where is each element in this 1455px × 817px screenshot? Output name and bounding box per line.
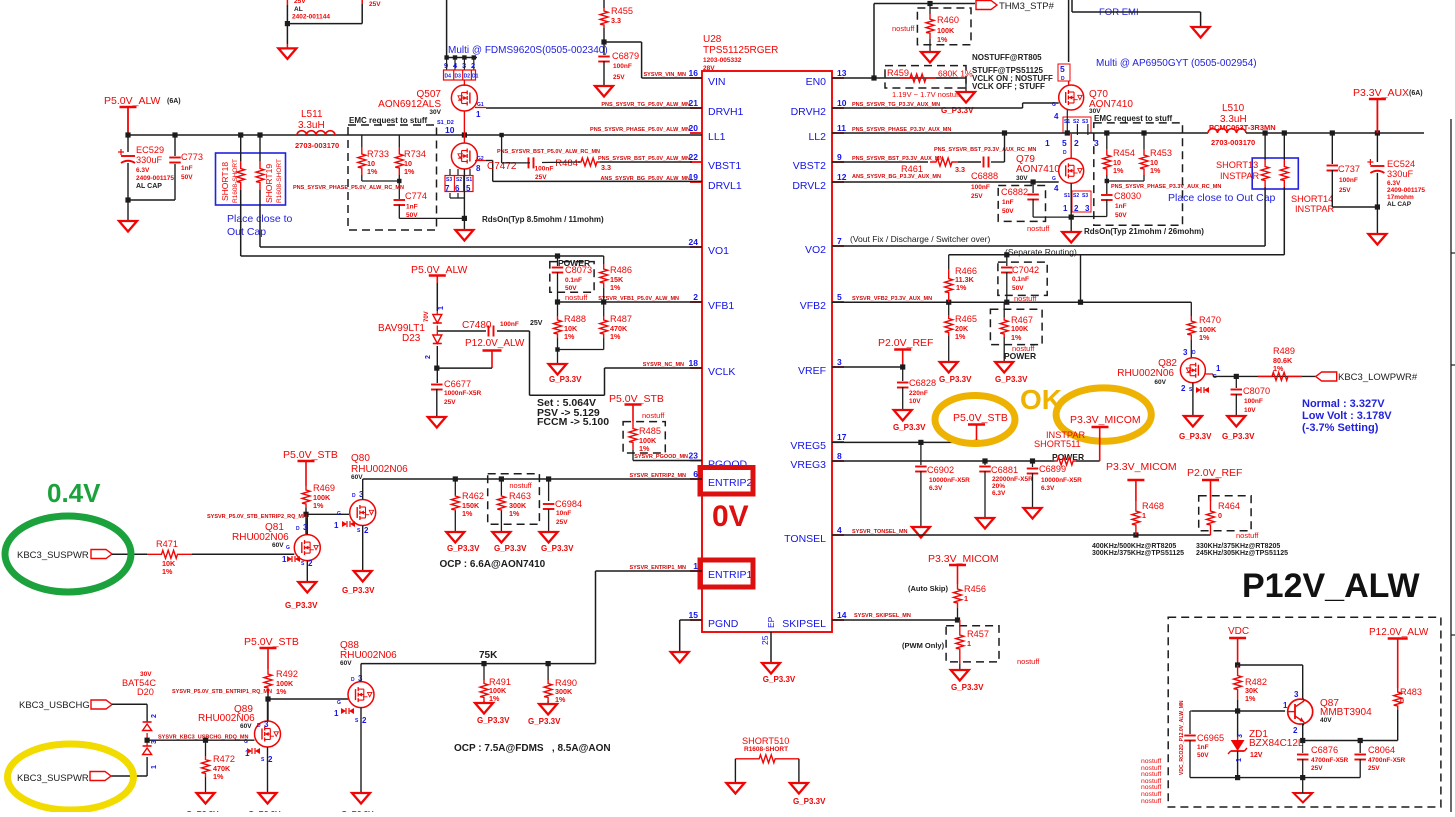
svg-text:D1: D1 xyxy=(472,74,479,80)
svg-text:3: 3 xyxy=(1294,690,1299,699)
svg-text:Place close to Out Cap: Place close to Out Cap xyxy=(1168,192,1276,204)
svg-text:25V: 25V xyxy=(369,1,381,8)
svg-text:1nF: 1nF xyxy=(1002,199,1014,206)
svg-text:R463: R463 xyxy=(509,491,531,501)
svg-text:ENTRIP2: ENTRIP2 xyxy=(708,477,753,489)
svg-text:VFB1: VFB1 xyxy=(708,300,734,312)
svg-text:3: 3 xyxy=(1183,348,1188,357)
svg-text:17: 17 xyxy=(837,432,847,442)
svg-text:50V: 50V xyxy=(565,285,577,292)
svg-text:6.3V: 6.3V xyxy=(929,485,943,492)
svg-text:0.4V: 0.4V xyxy=(47,478,101,508)
svg-text:S3: S3 xyxy=(1082,193,1088,199)
svg-text:P2.0V_REF: P2.0V_REF xyxy=(1187,467,1242,479)
svg-text:2: 2 xyxy=(268,755,273,764)
svg-text:SYSVR_VIN_MN: SYSVR_VIN_MN xyxy=(644,72,687,78)
svg-text:INSTPAR: INSTPAR xyxy=(1220,171,1260,181)
svg-text:PNS_SYSVR_BST_P3.3V_AUX_MN: PNS_SYSVR_BST_P3.3V_AUX_MN xyxy=(852,156,943,162)
svg-text:VCLK OFF ; STUFF: VCLK OFF ; STUFF xyxy=(972,82,1045,91)
svg-text:15: 15 xyxy=(689,610,699,620)
svg-text:SYSVR_SKIPSEL_MN: SYSVR_SKIPSEL_MN xyxy=(854,613,911,619)
svg-text:R455: R455 xyxy=(611,6,633,16)
svg-text:1nF: 1nF xyxy=(1115,203,1127,210)
svg-text:50V: 50V xyxy=(1002,208,1014,215)
svg-text:(Vout Fix / Discharge / Switch: (Vout Fix / Discharge / Switcher over) xyxy=(850,234,990,244)
svg-text:P5.0V_STB: P5.0V_STB xyxy=(283,449,338,461)
svg-text:2409-001175: 2409-001175 xyxy=(136,175,174,182)
svg-text:SYSVR_ENTRIP2_MN: SYSVR_ENTRIP2_MN xyxy=(629,473,686,479)
svg-text:VDC: VDC xyxy=(1228,626,1249,637)
svg-text:3: 3 xyxy=(151,740,158,744)
svg-text:2409-001175: 2409-001175 xyxy=(1387,187,1425,194)
svg-text:PNS_SYSVR_BST_P3.3V_AUX_RC_MN: PNS_SYSVR_BST_P3.3V_AUX_RC_MN xyxy=(934,147,1036,153)
svg-text:3.3uH: 3.3uH xyxy=(298,120,325,131)
svg-text:VO1: VO1 xyxy=(708,245,729,257)
svg-text:2: 2 xyxy=(362,716,367,725)
svg-text:D: D xyxy=(352,493,356,499)
svg-text:11: 11 xyxy=(837,123,846,133)
svg-text:PCMC063T-3R3MN: PCMC063T-3R3MN xyxy=(1209,123,1276,132)
svg-text:DRVH2: DRVH2 xyxy=(791,106,827,118)
svg-text:1nF: 1nF xyxy=(1197,744,1209,751)
svg-text:1%: 1% xyxy=(162,567,173,576)
svg-text:1nF: 1nF xyxy=(406,204,418,211)
svg-text:0: 0 xyxy=(1400,696,1404,705)
svg-text:25V: 25V xyxy=(971,193,983,200)
svg-text:5: 5 xyxy=(1060,64,1065,74)
svg-text:16: 16 xyxy=(689,68,699,78)
svg-text:3.3: 3.3 xyxy=(955,165,965,174)
svg-text:SHORT511: SHORT511 xyxy=(1034,439,1081,449)
svg-text:FCCM -> 5.100: FCCM -> 5.100 xyxy=(537,416,609,428)
svg-text:P3.3V_MICOM: P3.3V_MICOM xyxy=(928,553,999,565)
svg-text:G: G xyxy=(337,511,341,517)
svg-text:R471: R471 xyxy=(156,539,178,549)
svg-text:25V: 25V xyxy=(1339,187,1351,194)
svg-text:EP: EP xyxy=(766,616,776,628)
svg-text:PGND: PGND xyxy=(708,618,739,630)
svg-text:60V: 60V xyxy=(272,542,284,549)
svg-text:60V: 60V xyxy=(240,723,252,730)
svg-text:60V: 60V xyxy=(340,660,352,667)
svg-text:nostuff: nostuff xyxy=(1027,224,1050,233)
svg-text:VO2: VO2 xyxy=(805,244,826,256)
svg-text:R1608-SHORT: R1608-SHORT xyxy=(744,746,788,753)
svg-text:D: D xyxy=(257,723,261,729)
svg-text:SHORT14: SHORT14 xyxy=(1291,194,1333,204)
svg-text:1: 1 xyxy=(334,709,339,718)
svg-text:PNS_SYSVR_PHASE_P5.0V_ALW_RC_M: PNS_SYSVR_PHASE_P5.0V_ALW_RC_MN xyxy=(293,185,404,191)
svg-text:G_P3.3V: G_P3.3V xyxy=(763,675,796,684)
svg-text:R465: R465 xyxy=(955,314,977,324)
svg-text:1nF: 1nF xyxy=(181,165,193,172)
svg-text:0V: 0V xyxy=(712,500,749,533)
svg-text:R454: R454 xyxy=(1113,148,1135,158)
svg-text:EMC request to stuff: EMC request to stuff xyxy=(1094,114,1173,123)
svg-text:4700nF-X5R: 4700nF-X5R xyxy=(1311,757,1349,764)
svg-text:100nF: 100nF xyxy=(500,321,519,328)
svg-text:17mohm: 17mohm xyxy=(1387,194,1414,201)
svg-text:(6A): (6A) xyxy=(1409,90,1423,97)
svg-text:nostuff: nostuff xyxy=(1014,294,1037,303)
svg-text:13: 13 xyxy=(837,68,847,78)
svg-text:P5.0V_STB: P5.0V_STB xyxy=(609,393,664,405)
svg-text:R488: R488 xyxy=(564,314,586,324)
svg-text:28V: 28V xyxy=(703,65,715,72)
svg-text:L511: L511 xyxy=(301,109,323,120)
svg-text:P2.0V_REF: P2.0V_REF xyxy=(878,337,933,349)
svg-text:R469: R469 xyxy=(313,483,335,493)
svg-text:P5.0V_ALW: P5.0V_ALW xyxy=(411,264,468,276)
svg-text:1%: 1% xyxy=(610,332,621,341)
svg-text:PNS_SYSVR_PHASE_P3.3V_AUX_MN: PNS_SYSVR_PHASE_P3.3V_AUX_MN xyxy=(852,127,951,133)
svg-text:C7042: C7042 xyxy=(1012,265,1039,275)
svg-text:4700nF-X5R: 4700nF-X5R xyxy=(1368,757,1406,764)
svg-text:4: 4 xyxy=(1054,184,1059,193)
svg-text:0: 0 xyxy=(1218,511,1222,520)
svg-text:2: 2 xyxy=(425,355,432,359)
svg-text:R456: R456 xyxy=(964,584,986,594)
svg-text:1%: 1% xyxy=(564,332,575,341)
svg-text:1%: 1% xyxy=(955,332,966,341)
svg-text:PNS_SYSVR_PHASE_P5.0V_ALW_MN: PNS_SYSVR_PHASE_P5.0V_ALW_MN xyxy=(590,127,690,133)
svg-text:PNS_SYSVR_BST_P5.0V_ALW_RC_MN: PNS_SYSVR_BST_P5.0V_ALW_RC_MN xyxy=(497,149,600,155)
svg-text:1203-005332: 1203-005332 xyxy=(703,57,742,64)
svg-text:1: 1 xyxy=(151,765,158,769)
svg-text:3.3: 3.3 xyxy=(601,163,611,172)
svg-text:1: 1 xyxy=(1142,511,1146,520)
svg-text:1%: 1% xyxy=(956,283,967,292)
svg-text:SYSVR_VFB1_P5.0V_ALW_MN: SYSVR_VFB1_P5.0V_ALW_MN xyxy=(598,296,679,302)
svg-text:KBC3_SUSPWR: KBC3_SUSPWR xyxy=(17,773,89,784)
svg-text:6.3V: 6.3V xyxy=(992,490,1006,497)
svg-text:50V: 50V xyxy=(1115,212,1127,219)
svg-text:SHORT13: SHORT13 xyxy=(1216,160,1258,170)
svg-text:25V: 25V xyxy=(613,74,625,81)
svg-text:R1608-SHORT: R1608-SHORT xyxy=(276,159,283,203)
svg-text:P12V_ALW: P12V_ALW xyxy=(1242,567,1421,605)
svg-text:nostuff: nostuff xyxy=(1017,657,1040,666)
svg-text:R461: R461 xyxy=(901,164,923,174)
svg-text:R489: R489 xyxy=(1273,346,1295,356)
svg-text:AL CAP: AL CAP xyxy=(1387,201,1412,208)
svg-text:25V: 25V xyxy=(556,519,568,526)
svg-text:10: 10 xyxy=(445,125,455,135)
svg-text:8: 8 xyxy=(476,164,481,173)
svg-text:EN0: EN0 xyxy=(806,76,827,88)
svg-text:3.3: 3.3 xyxy=(611,16,621,25)
svg-text:R462: R462 xyxy=(462,491,484,501)
svg-text:10V: 10V xyxy=(909,398,921,405)
svg-text:VDC_RCO2D_P12.0V_ALW_MN: VDC_RCO2D_P12.0V_ALW_MN xyxy=(1179,700,1185,775)
svg-text:nostuff: nostuff xyxy=(509,481,532,490)
svg-text:VIN: VIN xyxy=(708,76,726,88)
svg-text:C6888: C6888 xyxy=(971,171,998,181)
svg-text:2: 2 xyxy=(1181,384,1186,393)
svg-text:SYSVR_P5.0V_STB_ENTRIP2_RQ_MN: SYSVR_P5.0V_STB_ENTRIP2_RQ_MN xyxy=(207,514,307,520)
svg-text:SYSVR_VFB2_P3.3V_AUX_MN: SYSVR_VFB2_P3.3V_AUX_MN xyxy=(852,296,932,302)
svg-text:nostuff: nostuff xyxy=(1141,784,1161,791)
svg-text:1: 1 xyxy=(334,521,339,530)
svg-text:nostuff: nostuff xyxy=(642,411,665,420)
svg-text:DRVH1: DRVH1 xyxy=(708,106,744,118)
svg-text:SYSVR_ENTRIP1_MN: SYSVR_ENTRIP1_MN xyxy=(629,565,686,571)
svg-text:2402-001144: 2402-001144 xyxy=(292,14,330,21)
svg-text:40V: 40V xyxy=(1320,717,1332,724)
svg-text:1.19V ~ 1.7V nostuff: 1.19V ~ 1.7V nostuff xyxy=(892,90,961,99)
svg-text:G_P3.3V: G_P3.3V xyxy=(951,683,984,692)
svg-text:R453: R453 xyxy=(1150,148,1172,158)
svg-text:S1: S1 xyxy=(466,177,472,183)
svg-text:1%: 1% xyxy=(276,687,287,696)
svg-text:50V: 50V xyxy=(181,174,193,181)
svg-text:G_P3.3V: G_P3.3V xyxy=(477,716,510,725)
svg-text:DRVL1: DRVL1 xyxy=(708,180,742,192)
svg-text:C6828: C6828 xyxy=(909,378,936,388)
svg-text:G: G xyxy=(1052,176,1056,182)
svg-text:nostuff: nostuff xyxy=(1236,531,1259,540)
svg-text:25V: 25V xyxy=(535,174,547,181)
svg-text:3: 3 xyxy=(264,720,269,729)
svg-text:G_P3.3V: G_P3.3V xyxy=(1222,432,1255,441)
svg-text:25V: 25V xyxy=(1311,765,1323,772)
svg-text:C6882: C6882 xyxy=(1001,187,1028,197)
svg-text:D: D xyxy=(1192,350,1196,356)
svg-text:nostuff: nostuff xyxy=(1141,758,1161,765)
svg-text:1%: 1% xyxy=(937,35,948,44)
svg-text:PNS_SYSVR_TG_P3.3V_AUX_MN: PNS_SYSVR_TG_P3.3V_AUX_MN xyxy=(852,102,940,108)
svg-text:1%: 1% xyxy=(610,283,621,292)
svg-text:R470: R470 xyxy=(1199,315,1221,325)
svg-text:nostuff: nostuff xyxy=(1141,798,1161,805)
svg-text:R460: R460 xyxy=(937,15,959,25)
svg-text:S2: S2 xyxy=(1073,193,1079,199)
svg-text:S2: S2 xyxy=(456,177,462,183)
svg-text:100nF: 100nF xyxy=(1339,177,1358,184)
svg-text:VFB2: VFB2 xyxy=(800,300,826,312)
svg-text:1%: 1% xyxy=(509,509,520,518)
svg-text:25V: 25V xyxy=(1368,765,1380,772)
svg-text:4: 4 xyxy=(1054,112,1059,121)
svg-text:Q80: Q80 xyxy=(351,453,370,464)
svg-text:330uF: 330uF xyxy=(1387,169,1413,179)
svg-text:AL: AL xyxy=(294,6,303,13)
svg-text:23: 23 xyxy=(689,451,699,461)
svg-text:C7480: C7480 xyxy=(462,320,492,331)
svg-text:4: 4 xyxy=(837,525,842,535)
svg-text:P5.0V_ALW: P5.0V_ALW xyxy=(104,95,161,107)
svg-text:EC524: EC524 xyxy=(1387,159,1415,169)
svg-text:1%: 1% xyxy=(404,167,415,176)
svg-text:P3.3V_MICOM: P3.3V_MICOM xyxy=(1070,414,1141,426)
svg-text:10000nF-X5R: 10000nF-X5R xyxy=(1041,477,1082,484)
svg-text:R492: R492 xyxy=(276,669,298,679)
svg-text:1%: 1% xyxy=(1011,333,1022,342)
svg-text:R733: R733 xyxy=(367,149,389,159)
svg-text:EC529: EC529 xyxy=(136,145,164,155)
svg-text:2: 2 xyxy=(364,526,369,535)
svg-text:P5.0V_STB: P5.0V_STB xyxy=(953,412,1008,424)
svg-text:25V: 25V xyxy=(294,0,306,5)
svg-text:S2: S2 xyxy=(1073,119,1079,125)
svg-text:75K: 75K xyxy=(479,650,498,661)
svg-text:1%: 1% xyxy=(639,444,650,453)
svg-text:245KHz/305KHz@TPS51125: 245KHz/305KHz@TPS51125 xyxy=(1196,550,1288,557)
svg-text:G_P3.3V: G_P3.3V xyxy=(342,586,375,595)
svg-text:C6902: C6902 xyxy=(927,465,954,475)
svg-text:C8073: C8073 xyxy=(565,265,592,275)
svg-text:BZX84C12L: BZX84C12L xyxy=(1249,738,1304,749)
svg-text:1000nF-X5R: 1000nF-X5R xyxy=(444,390,482,397)
svg-text:TPS51125RGER: TPS51125RGER xyxy=(703,45,778,56)
svg-text:R472: R472 xyxy=(213,754,235,764)
svg-text:22000nF-X5R: 22000nF-X5R xyxy=(992,476,1033,483)
svg-text:3: 3 xyxy=(837,357,842,367)
svg-text:VBST2: VBST2 xyxy=(793,160,826,172)
svg-text:Normal : 3.327V: Normal : 3.327V xyxy=(1302,398,1385,410)
svg-text:ANS_SYSVR_BG_P3.3V_AUX_MN: ANS_SYSVR_BG_P3.3V_AUX_MN xyxy=(852,174,941,180)
svg-text:VBST1: VBST1 xyxy=(708,160,741,172)
svg-text:P3.3V_AUX: P3.3V_AUX xyxy=(1353,87,1409,99)
svg-text:AON7410: AON7410 xyxy=(1016,164,1060,175)
svg-text:P12.0V_ALW: P12.0V_ALW xyxy=(465,338,525,349)
svg-text:SYSVR_PGOOD_MN: SYSVR_PGOOD_MN xyxy=(634,454,688,460)
svg-text:PNS_SYSVR_PHASE_P3.3V_AUX_RC_M: PNS_SYSVR_PHASE_P3.3V_AUX_RC_MN xyxy=(1111,184,1221,190)
svg-text:PNS_SYSVR_TG_P5.0V_ALW_MN: PNS_SYSVR_TG_P5.0V_ALW_MN xyxy=(601,102,690,108)
svg-text:2703-003170: 2703-003170 xyxy=(1211,138,1255,147)
svg-text:20%: 20% xyxy=(992,483,1005,490)
svg-text:D2: D2 xyxy=(464,74,471,80)
svg-text:nostuff: nostuff xyxy=(565,293,588,302)
svg-text:2: 2 xyxy=(308,559,313,568)
svg-text:ENTRIP1: ENTRIP1 xyxy=(708,569,753,581)
svg-text:1%: 1% xyxy=(462,509,473,518)
svg-text:30V: 30V xyxy=(429,109,441,116)
svg-text:L510: L510 xyxy=(1222,103,1245,114)
svg-text:RdsOn(Typ 8.5mohm / 11mohm): RdsOn(Typ 8.5mohm / 11mohm) xyxy=(482,215,604,224)
svg-text:(-3.7% Setting): (-3.7% Setting) xyxy=(1302,422,1379,434)
svg-text:1%: 1% xyxy=(1113,166,1124,175)
svg-text:6.3V: 6.3V xyxy=(1387,180,1401,187)
svg-text:Multi @ FDMS9620S(0505-002340): Multi @ FDMS9620S(0505-002340) xyxy=(448,45,608,56)
svg-text:G_P3.3V: G_P3.3V xyxy=(541,544,574,553)
svg-text:3: 3 xyxy=(462,61,466,70)
svg-text:2: 2 xyxy=(151,714,158,718)
svg-text:C6876: C6876 xyxy=(1311,745,1338,755)
svg-text:KBC3_SUSPWR: KBC3_SUSPWR xyxy=(17,550,89,561)
svg-text:5: 5 xyxy=(1062,138,1067,148)
svg-text:nostuff: nostuff xyxy=(1141,771,1161,778)
svg-text:R457: R457 xyxy=(967,629,989,639)
svg-text:VCLK: VCLK xyxy=(708,366,735,378)
svg-text:100nF: 100nF xyxy=(971,184,990,191)
svg-text:POWER: POWER xyxy=(1004,351,1036,361)
svg-text:LL1: LL1 xyxy=(708,131,726,143)
svg-text:25V: 25V xyxy=(530,320,543,327)
svg-text:PNS_SYSVR_BST_P5.0V_ALW_MN: PNS_SYSVR_BST_P5.0V_ALW_MN xyxy=(598,156,690,162)
svg-text:G_P3.3V: G_P3.3V xyxy=(793,797,826,806)
svg-text:(Auto Skip): (Auto Skip) xyxy=(908,584,948,593)
svg-text:1%: 1% xyxy=(213,772,224,781)
svg-text:R487: R487 xyxy=(610,314,632,324)
svg-text:1: 1 xyxy=(476,110,481,119)
svg-text:SHORT19: SHORT19 xyxy=(264,164,274,203)
svg-text:7: 7 xyxy=(837,236,842,246)
svg-text:KBC3_USBCHG: KBC3_USBCHG xyxy=(19,700,90,711)
svg-text:680K 1%: 680K 1% xyxy=(938,69,973,79)
svg-text:SYSVR_TONSEL_MN: SYSVR_TONSEL_MN xyxy=(852,529,908,535)
svg-text:D: D xyxy=(1063,150,1067,156)
svg-text:D4: D4 xyxy=(445,74,452,80)
svg-text:VREF: VREF xyxy=(798,365,826,377)
svg-text:10: 10 xyxy=(837,98,847,108)
svg-text:5: 5 xyxy=(837,292,842,302)
svg-text:1%: 1% xyxy=(367,167,378,176)
svg-text:1%: 1% xyxy=(1199,333,1210,342)
svg-text:C6879: C6879 xyxy=(612,51,639,61)
svg-text:C8030: C8030 xyxy=(1114,191,1141,201)
svg-text:0.1nF: 0.1nF xyxy=(565,277,582,284)
svg-text:9: 9 xyxy=(837,152,842,162)
svg-text:nostuff: nostuff xyxy=(1141,791,1161,798)
svg-text:G: G xyxy=(337,700,341,706)
svg-text:1: 1 xyxy=(438,306,445,310)
svg-text:1: 1 xyxy=(1045,138,1050,148)
svg-text:12: 12 xyxy=(837,172,847,182)
svg-text:R464: R464 xyxy=(1218,501,1240,511)
svg-text:RHU002N06: RHU002N06 xyxy=(1117,368,1174,379)
svg-text:100K: 100K xyxy=(1011,324,1029,333)
svg-text:G: G xyxy=(286,545,290,551)
svg-text:P12.0V_ALW: P12.0V_ALW xyxy=(1369,627,1429,638)
svg-text:G_P3.3V: G_P3.3V xyxy=(285,601,318,610)
svg-text:D23: D23 xyxy=(402,333,421,344)
svg-text:SYSVR_P5.0V_STB_ENTRIP1_RQ_MN: SYSVR_P5.0V_STB_ENTRIP1_RQ_MN xyxy=(172,689,272,695)
svg-text:D: D xyxy=(351,677,355,683)
svg-text:220nF: 220nF xyxy=(909,390,928,397)
svg-text:SYSVR_NC_MN: SYSVR_NC_MN xyxy=(643,362,684,368)
svg-text:C8064: C8064 xyxy=(1368,745,1395,755)
svg-text:C6899: C6899 xyxy=(1039,464,1066,474)
svg-text:VREG5: VREG5 xyxy=(790,440,826,452)
svg-text:24: 24 xyxy=(689,237,699,247)
svg-text:60V: 60V xyxy=(351,474,363,481)
svg-text:G_P3.3V: G_P3.3V xyxy=(447,544,480,553)
svg-text:12V: 12V xyxy=(1250,752,1263,759)
svg-text:G_P3.3V: G_P3.3V xyxy=(528,717,561,726)
svg-text:1: 1 xyxy=(967,639,971,648)
svg-text:14: 14 xyxy=(837,610,847,620)
svg-text:1: 1 xyxy=(1063,204,1068,213)
svg-text:AL CAP: AL CAP xyxy=(136,183,162,190)
svg-text:100nF: 100nF xyxy=(613,63,632,70)
svg-text:1%: 1% xyxy=(489,694,500,703)
svg-text:(PWM Only): (PWM Only) xyxy=(902,641,945,650)
svg-text:8: 8 xyxy=(837,451,842,461)
svg-text:1%: 1% xyxy=(1245,694,1256,703)
svg-text:2703-003170: 2703-003170 xyxy=(295,141,339,150)
svg-text:KBC3_LOWPWR#: KBC3_LOWPWR# xyxy=(1338,372,1418,383)
svg-text:10nF: 10nF xyxy=(556,510,571,517)
svg-text:9: 9 xyxy=(444,61,448,70)
svg-text:R734: R734 xyxy=(404,149,426,159)
svg-text:VREG3: VREG3 xyxy=(790,459,826,471)
svg-text:nostuff: nostuff xyxy=(892,24,915,33)
svg-text:D20: D20 xyxy=(137,687,154,697)
svg-text:(6A): (6A) xyxy=(167,98,181,105)
svg-text:G_P3.3V: G_P3.3V xyxy=(1179,432,1212,441)
svg-text:S1: S1 xyxy=(1064,193,1070,199)
